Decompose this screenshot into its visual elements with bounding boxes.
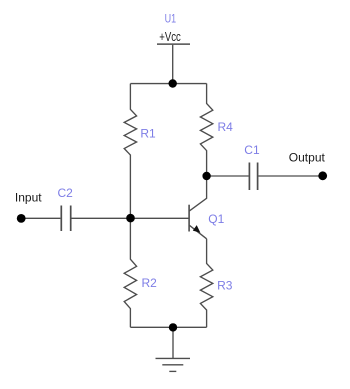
svg-text:U1: U1 bbox=[165, 11, 177, 25]
svg-text:C1: C1 bbox=[244, 143, 260, 157]
svg-text:+Vcc: +Vcc bbox=[159, 29, 181, 44]
svg-text:Q1: Q1 bbox=[208, 212, 224, 226]
svg-text:Output: Output bbox=[289, 151, 326, 165]
svg-text:R4: R4 bbox=[218, 120, 234, 134]
svg-text:R2: R2 bbox=[142, 276, 158, 290]
svg-text:R3: R3 bbox=[217, 279, 233, 293]
svg-text:C2: C2 bbox=[58, 186, 74, 200]
svg-text:Input: Input bbox=[15, 191, 42, 205]
svg-text:R1: R1 bbox=[140, 126, 156, 140]
